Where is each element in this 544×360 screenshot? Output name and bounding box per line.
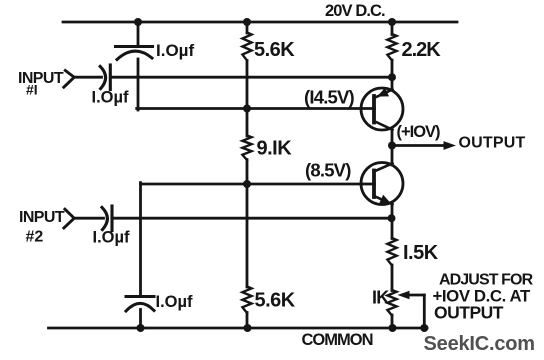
svg-text:(+IOV): (+IOV) [397, 123, 441, 141]
svg-text:IK: IK [372, 288, 389, 308]
svg-text:OUTPUT: OUTPUT [459, 135, 526, 152]
svg-text:(I4.5V): (I4.5V) [304, 87, 355, 108]
svg-text:COMMON: COMMON [302, 331, 373, 349]
svg-text:SeekIC.com: SeekIC.com [424, 333, 535, 355]
svg-text:I.Oµf: I.Oµf [92, 89, 130, 107]
svg-text:INPUT: INPUT [18, 70, 64, 87]
svg-text:I.5K: I.5K [403, 242, 439, 264]
svg-text:I.Oµf: I.Oµf [156, 293, 194, 311]
svg-text:2.2K: 2.2K [402, 39, 442, 61]
svg-text:OUTPUT: OUTPUT [434, 303, 504, 323]
svg-text:INPUT: INPUT [19, 209, 65, 226]
svg-text:#2: #2 [26, 229, 44, 246]
svg-text:I.Oµf: I.Oµf [93, 229, 131, 247]
svg-text:I.Oµf: I.Oµf [156, 41, 194, 60]
svg-text:20V D.C.: 20V D.C. [325, 2, 385, 20]
svg-text:5.6K: 5.6K [255, 290, 296, 312]
svg-text:#I: #I [26, 82, 38, 98]
svg-text:9.IK: 9.IK [257, 138, 293, 160]
svg-text:(8.5V): (8.5V) [305, 160, 351, 181]
svg-text:5.6K: 5.6K [254, 39, 295, 61]
